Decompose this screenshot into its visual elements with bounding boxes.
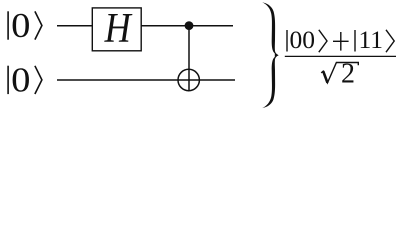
svg-text:00: 00 <box>290 25 316 54</box>
svg-text:0: 0 <box>11 6 30 45</box>
svg-text:H: H <box>104 4 133 51</box>
svg-text:2: 2 <box>341 58 355 89</box>
svg-text:11: 11 <box>359 25 384 54</box>
svg-text:0: 0 <box>11 61 30 100</box>
